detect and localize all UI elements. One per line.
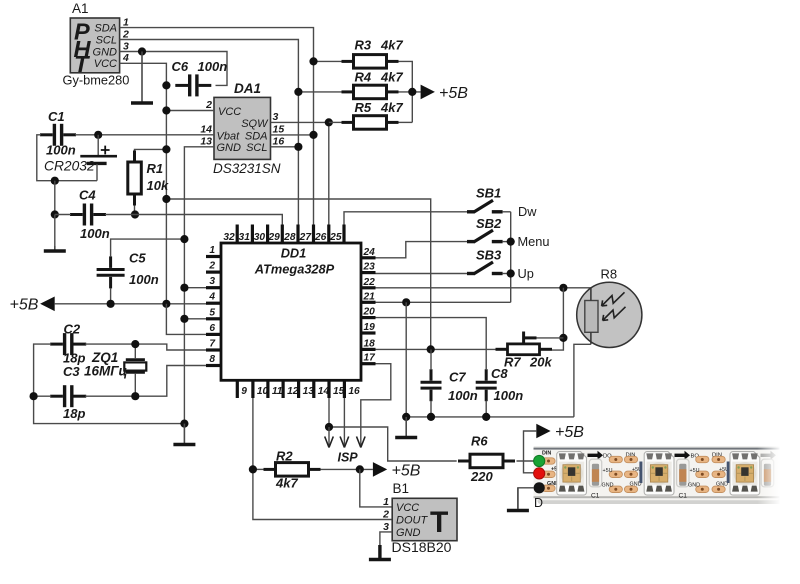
svg-text:3: 3 xyxy=(123,40,129,52)
pin DD1.14 stub xyxy=(314,380,330,398)
svg-text:14: 14 xyxy=(200,123,212,135)
label C2 xyxy=(64,322,81,337)
junction C5 top / ground vertical xyxy=(180,235,188,243)
svg-text:27: 27 xyxy=(299,232,313,243)
junction ZQ1 top xyxy=(131,340,139,348)
wire R8 bottom to gnd line xyxy=(574,344,591,417)
pin DD1.12 stub xyxy=(283,380,299,398)
trimmer R7 20k xyxy=(496,332,553,355)
value R4 4k7 xyxy=(380,70,403,85)
wire AVCC feed from +5V vertical xyxy=(166,199,430,349)
+5V arrow at strip xyxy=(536,424,550,439)
value C7 100n xyxy=(448,388,478,403)
label R4 xyxy=(355,70,372,85)
svg-text:2: 2 xyxy=(122,28,129,40)
svg-text:C5: C5 xyxy=(129,251,146,266)
label R8 xyxy=(601,267,618,282)
label +5V pull-ups xyxy=(439,85,468,102)
label Dw xyxy=(518,204,537,219)
wire +5V to strip power xyxy=(524,431,537,473)
label Up xyxy=(518,266,534,281)
wire DA1 VCC pin2 to +5V vertical xyxy=(166,110,214,112)
wire C5 top to ground vertical xyxy=(111,239,185,256)
pin number DA1.2 xyxy=(205,99,212,111)
value R1 10k xyxy=(147,178,169,193)
wire C3 to DD1 pin8 xyxy=(85,366,206,397)
svg-text:1: 1 xyxy=(383,496,389,508)
strip GND terminal (black) xyxy=(534,482,545,493)
svg-text:4: 4 xyxy=(122,52,129,64)
svg-text:25: 25 xyxy=(329,232,342,243)
svg-text:SB1: SB1 xyxy=(476,186,501,201)
svg-text:C1: C1 xyxy=(679,493,688,500)
capacitor C5 xyxy=(97,256,125,288)
svg-text:20k: 20k xyxy=(529,355,552,370)
pin number DA1.13 xyxy=(200,135,212,147)
pin DD1.8 stub xyxy=(206,354,221,366)
junction R4/SCL xyxy=(294,88,302,96)
label Menu xyxy=(518,234,550,249)
svg-text:100n: 100n xyxy=(198,59,228,74)
resistor R1 10k (reset pull-up) xyxy=(128,151,142,206)
svg-text:10k: 10k xyxy=(147,178,169,193)
pin DD1.1 stub xyxy=(206,245,221,257)
capacitor C8 (AREF) xyxy=(476,369,497,401)
wire +5V to B1 VCC xyxy=(360,469,392,507)
junction R2 right / B1 VCC xyxy=(356,465,364,473)
pin DD1.9 stub xyxy=(237,380,247,398)
svg-text:GND: GND xyxy=(93,46,118,58)
pin DD1.4 stub xyxy=(206,292,221,304)
svg-text:4: 4 xyxy=(208,292,215,303)
junction pin21 gnd xyxy=(402,298,410,306)
wire R2 left xyxy=(253,468,264,470)
resistor R6 220 (LED data) xyxy=(458,454,515,468)
svg-text:C3: C3 xyxy=(63,364,80,379)
junction on A1 GND line xyxy=(138,47,146,55)
label CR2032 xyxy=(44,159,95,174)
label DA1 xyxy=(234,81,261,96)
svg-text:R8: R8 xyxy=(601,267,618,282)
wire C2 to DD1 pin7 xyxy=(85,344,206,350)
value C3 18p xyxy=(63,406,85,421)
label C7 xyxy=(449,370,466,385)
svg-text:3: 3 xyxy=(273,111,279,123)
junction R2 left xyxy=(249,465,257,473)
svg-text:B1: B1 xyxy=(393,481,410,496)
svg-text:2: 2 xyxy=(382,509,389,521)
+5V arrow (pull-ups) xyxy=(421,85,435,100)
pin DD1.31 stub xyxy=(239,225,253,244)
capacitor C2 (crystal load) xyxy=(50,333,86,355)
resistor R2 4k7 (1-wire pull-up) xyxy=(264,463,321,477)
svg-text:GND: GND xyxy=(396,527,421,539)
pin number B1.3 xyxy=(383,521,389,533)
svg-text:SB2: SB2 xyxy=(476,216,502,231)
pin DD1.7 stub xyxy=(206,339,221,351)
wire ground vertical to DD1 pin3 xyxy=(184,287,206,289)
pin number DA1.3 xyxy=(273,111,279,123)
svg-text:18p: 18p xyxy=(63,406,85,421)
resistor R3 4k7 xyxy=(342,55,399,69)
pin DD1.19 stub xyxy=(361,322,376,333)
wire DD1 pin10 down to R2 and DOUT xyxy=(253,398,392,520)
pin number A1.4 xyxy=(122,52,129,64)
svg-text:3: 3 xyxy=(209,276,215,287)
wire DD1 pin22 to photoresistor R8 top xyxy=(376,287,591,289)
label R3 xyxy=(355,38,372,53)
svg-text:DS3231SN: DS3231SN xyxy=(213,161,281,176)
wire C7 bottom xyxy=(430,401,432,417)
svg-text:Menu: Menu xyxy=(518,234,550,249)
label C4 xyxy=(79,188,96,203)
svg-text:R3: R3 xyxy=(355,38,372,53)
wire DD1 pin18 to R7 left (AVCC net) xyxy=(376,348,496,350)
wire DA1 SDA pin15 to SDA bus xyxy=(271,134,314,136)
svg-text:9: 9 xyxy=(241,386,247,397)
wire A1 SCL pin2 to DD1 pin28 (SCL bus) xyxy=(120,40,299,226)
pin DD1.16 stub xyxy=(344,380,360,398)
label R7 xyxy=(504,355,521,370)
wire R7 wiper to net xyxy=(537,337,564,339)
junction SB3 common xyxy=(507,269,515,277)
pin DD1.2 stub xyxy=(206,261,221,273)
label C1 xyxy=(48,109,65,124)
wire analog ground line xyxy=(406,416,574,418)
battery plus sign xyxy=(101,146,110,155)
label C5 xyxy=(129,251,146,266)
label +5V at R2 xyxy=(392,463,421,480)
label R6 xyxy=(471,434,488,449)
svg-text:31: 31 xyxy=(239,232,251,243)
svg-text:2: 2 xyxy=(205,99,212,111)
junction C7 bottom xyxy=(427,413,435,421)
label R5 xyxy=(355,100,372,115)
svg-text:Gy-bme280: Gy-bme280 xyxy=(63,73,130,88)
svg-text:C8: C8 xyxy=(491,366,508,381)
wire B1 GND to ground xyxy=(380,532,392,552)
svg-text:19: 19 xyxy=(364,322,376,333)
svg-text:4k7: 4k7 xyxy=(380,70,403,85)
label ISP xyxy=(338,451,359,465)
svg-text:GND: GND xyxy=(217,142,242,154)
pin DD1.24 stub xyxy=(361,247,376,258)
svg-text:4k7: 4k7 xyxy=(275,476,298,491)
svg-text:ATmega328P: ATmega328P xyxy=(254,262,335,277)
pin DD1.17 stub xyxy=(361,353,376,364)
junction R1 bottom xyxy=(131,210,139,218)
wire DD1 pin24 to SB2 xyxy=(376,242,468,258)
svg-text:VCC: VCC xyxy=(396,502,419,514)
pin DD1.28 stub xyxy=(283,225,298,244)
value C6 100n xyxy=(198,59,228,74)
svg-text:21: 21 xyxy=(363,291,376,302)
ground under A1 xyxy=(131,52,153,104)
junction R1 top xyxy=(162,145,170,153)
value C5 100n xyxy=(129,272,159,287)
wire strip GND to ground xyxy=(518,488,536,508)
svg-text:C7: C7 xyxy=(449,370,466,385)
module A1 Gy-bme280 (BME280 sensor) xyxy=(70,18,119,77)
svg-text:20: 20 xyxy=(363,307,376,318)
label D on strip wire xyxy=(534,496,543,510)
svg-text:R4: R4 xyxy=(355,70,372,85)
label Gy-bme280 xyxy=(63,73,130,88)
capacitor C1 xyxy=(40,124,76,146)
pin DD1.26 stub xyxy=(314,225,329,244)
switch SB3 (Up) xyxy=(467,262,511,274)
capacitor C6 xyxy=(175,74,211,96)
wire battery minus down to reset line xyxy=(54,181,56,215)
svg-text:1: 1 xyxy=(123,16,129,28)
wire buttons common down to GND line xyxy=(510,212,512,302)
wire DD1 pin23 to SB3 xyxy=(376,273,468,275)
wire R3 left xyxy=(314,60,342,62)
svg-text:4k7: 4k7 xyxy=(380,100,403,115)
ground under battery xyxy=(44,246,66,251)
pin DD1.13 stub xyxy=(299,380,315,398)
pin DD1.25 stub xyxy=(329,225,344,244)
svg-text:32: 32 xyxy=(223,232,235,243)
pin DD1.15 stub xyxy=(329,380,345,398)
strip DIN terminal (green) xyxy=(534,455,545,466)
junction R3R4R5 common xyxy=(408,88,416,96)
wire A1 GND pin3 to C6 right xyxy=(120,52,227,86)
wire DD1 pin21 to ground / buttons common xyxy=(376,301,511,303)
svg-text:24: 24 xyxy=(363,247,376,258)
wire DD1 pin17 to ISP arrow xyxy=(361,364,391,446)
junction SQW/R5 xyxy=(325,118,333,126)
pin number DA1.14 xyxy=(200,123,212,135)
svg-text:+5В: +5В xyxy=(555,424,584,441)
label C6 xyxy=(172,59,189,74)
svg-text:DIN: DIN xyxy=(542,450,551,456)
junction C5 bottom xyxy=(107,300,115,308)
wire DD1 pin20 to C8 top xyxy=(376,318,487,370)
svg-text:Vbat: Vbat xyxy=(217,130,241,142)
junction pin3 gnd xyxy=(180,284,188,292)
junction ZQ1 bottom xyxy=(131,392,139,400)
svg-text:4k7: 4k7 xyxy=(380,38,403,53)
svg-text:GND: GND xyxy=(602,483,614,489)
svg-text:C4: C4 xyxy=(79,188,96,203)
wire C7 top xyxy=(430,349,432,370)
wire pin21 gnd vertical xyxy=(405,302,407,417)
label R1 xyxy=(147,161,164,176)
svg-text:Up: Up xyxy=(518,266,534,281)
crystal ZQ1 16MHz xyxy=(124,344,146,396)
value ZQ1 16MHz xyxy=(84,364,128,379)
pin DD1.32 stub xyxy=(223,225,237,244)
junction C6 left on +5V vertical xyxy=(162,81,170,89)
pin DD1.29 stub xyxy=(267,225,282,244)
pin number B1.1 xyxy=(383,496,389,508)
junction AVCC feed xyxy=(162,195,170,203)
+5V arrow at R2 xyxy=(373,462,387,477)
wire R5 right xyxy=(399,121,413,123)
svg-text:2: 2 xyxy=(208,261,215,272)
svg-text:SDA: SDA xyxy=(94,23,117,35)
value R6 220 xyxy=(470,469,493,484)
svg-text:5: 5 xyxy=(209,307,215,318)
svg-text:+5В: +5В xyxy=(10,297,39,314)
svg-text:Dw: Dw xyxy=(518,204,537,219)
value C8 100n xyxy=(494,388,524,403)
label B1 xyxy=(393,481,410,496)
svg-text:T: T xyxy=(430,506,448,539)
label SB2 xyxy=(476,216,502,231)
wire down to ground xyxy=(54,215,56,250)
wire C5 bottom to +5V rail xyxy=(110,288,112,303)
pin DD1.11 stub xyxy=(268,380,283,398)
wire +5V rail to DD1 pin4 xyxy=(55,303,206,305)
pin number A1.2 xyxy=(122,28,129,40)
capacitor C7 (AVCC) xyxy=(421,369,442,401)
svg-text:CR2032: CR2032 xyxy=(44,159,95,174)
ISP arrow MOSI xyxy=(325,427,334,448)
switch SB2 (Menu) xyxy=(467,230,511,242)
svg-text:6: 6 xyxy=(209,323,215,334)
wire C3 left stub xyxy=(34,395,52,397)
pin number DA1.16 xyxy=(273,135,285,147)
label +5V strip xyxy=(555,424,584,441)
junction ISP pin15 xyxy=(325,423,333,431)
pin DD1.21 stub xyxy=(361,291,376,302)
module B1 DS18B20 xyxy=(392,498,457,540)
pin DD1.6 stub xyxy=(206,323,221,335)
svg-text:23: 23 xyxy=(363,262,376,273)
label +5V left xyxy=(10,297,39,314)
svg-text:100n: 100n xyxy=(80,226,110,241)
wire R1 top to +5V vertical xyxy=(135,149,167,150)
svg-text:100n: 100n xyxy=(129,272,159,287)
value R5 4k7 xyxy=(380,100,403,115)
junction R7 wiper xyxy=(559,334,567,342)
svg-text:16: 16 xyxy=(273,135,285,147)
ground at strip xyxy=(507,488,529,511)
wire DD1 pin15 to ISP arrow and R6 line xyxy=(329,398,457,461)
wire ground vertical to DD1 pin5 xyxy=(184,318,206,320)
wire DA1 SQW pin3 to R5 and DD1 pin26 xyxy=(271,122,329,225)
wire R4 left xyxy=(298,91,341,93)
svg-text:+5U: +5U xyxy=(603,468,613,474)
svg-text:GND: GND xyxy=(688,483,700,489)
+5V arrow left xyxy=(40,297,55,312)
wire C1 right to battery junction xyxy=(75,134,98,136)
value R2 4k7 xyxy=(275,476,298,491)
pin DD1.23 stub xyxy=(361,262,376,273)
svg-text:220: 220 xyxy=(470,469,493,484)
pin number A1.1 xyxy=(123,16,129,28)
svg-text:22: 22 xyxy=(363,277,376,288)
wire A1 VCC pin4 down +5V vertical xyxy=(120,63,167,303)
label DS3231SN xyxy=(213,161,281,176)
svg-text:13: 13 xyxy=(200,135,212,147)
svg-text:16: 16 xyxy=(348,386,360,397)
junction battery minus xyxy=(51,177,59,185)
IC DD1 ATmega328P xyxy=(221,243,361,380)
wire R2 right to +5V arrow xyxy=(321,468,373,470)
pin number A1.3 xyxy=(123,40,129,52)
junction wiper net top xyxy=(559,284,567,292)
svg-text:R1: R1 xyxy=(147,161,164,176)
IC DA1 DS3231SN xyxy=(214,97,271,159)
pin DD1.27 stub xyxy=(299,225,314,244)
value R7 20k xyxy=(529,355,552,370)
svg-text:1: 1 xyxy=(209,245,215,256)
svg-text:+5В: +5В xyxy=(392,463,421,480)
wire R5 left xyxy=(329,121,342,123)
junction SCL bus xyxy=(294,143,302,151)
junction +5V vertical / rail xyxy=(162,300,170,308)
svg-text:SDA: SDA xyxy=(245,130,268,142)
wire wiper net vertical xyxy=(552,288,563,350)
svg-text:C1: C1 xyxy=(48,109,65,124)
pin DD1.18 stub xyxy=(361,338,376,349)
svg-text:DA1: DA1 xyxy=(234,81,261,96)
svg-text:26: 26 xyxy=(314,232,327,243)
junction SB2 common xyxy=(507,238,515,246)
svg-text:DD1: DD1 xyxy=(281,246,307,261)
label DS18B20 xyxy=(392,539,452,555)
svg-text:100n: 100n xyxy=(448,388,478,403)
junction C1/battery/Vbat xyxy=(94,131,102,139)
wire C8 bottom xyxy=(485,401,487,417)
ground analog xyxy=(395,417,417,438)
resistor R4 4k7 xyxy=(342,85,399,99)
pin DD1.10 stub xyxy=(253,380,269,398)
label C8 xyxy=(491,366,508,381)
svg-text:R2: R2 xyxy=(276,449,293,464)
label R2 xyxy=(276,449,293,464)
svg-text:C6: C6 xyxy=(172,59,189,74)
svg-text:16МГц: 16МГц xyxy=(84,364,128,379)
wire DA1 GND pin13 down ground vertical xyxy=(184,147,214,424)
junction R3/SDA xyxy=(309,57,317,65)
pin number DA1.15 xyxy=(273,123,285,135)
battery G1 CR2032 xyxy=(80,135,117,181)
pin DD1.5 stub xyxy=(206,307,221,319)
junction DA1 VCC xyxy=(162,106,170,114)
svg-text:+5U: +5U xyxy=(690,468,700,474)
svg-text:+5В: +5В xyxy=(439,85,468,102)
svg-text:VCC: VCC xyxy=(94,58,117,70)
svg-text:ISP: ISP xyxy=(338,451,359,465)
svg-text:15: 15 xyxy=(273,123,285,135)
value C2 18p xyxy=(63,351,85,366)
svg-text:17: 17 xyxy=(364,353,377,364)
wire DD1 pin25 to SB1 xyxy=(344,212,467,225)
svg-text:29: 29 xyxy=(267,232,280,243)
wire A1 SDA pin1 to DD1 pin27 (SDA bus) xyxy=(120,28,314,225)
ISP arrow MISO xyxy=(340,437,349,448)
ground under B1 xyxy=(369,545,391,560)
svg-text:A1: A1 xyxy=(72,1,89,16)
label A1 xyxy=(72,1,89,16)
junction crystal ground line xyxy=(180,420,188,428)
label SB1 xyxy=(476,186,501,201)
svg-text:DOUT: DOUT xyxy=(396,515,428,527)
label ZQ1 xyxy=(91,350,118,365)
svg-text:DS18B20: DS18B20 xyxy=(392,539,452,555)
junction C3 left xyxy=(29,392,37,400)
svg-text:R5: R5 xyxy=(355,100,372,115)
strip +5V terminal (red) xyxy=(534,468,545,479)
label C3 xyxy=(63,364,80,379)
svg-text:C1: C1 xyxy=(591,493,600,500)
svg-text:D: D xyxy=(534,496,543,510)
pin DD1.30 stub xyxy=(254,225,268,244)
